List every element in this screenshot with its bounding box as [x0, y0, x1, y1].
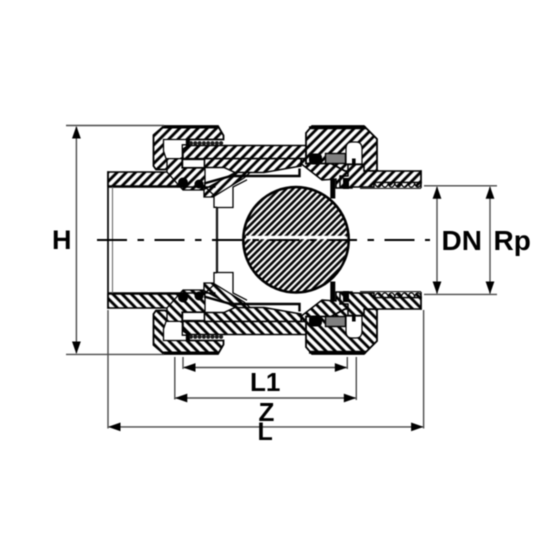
dimension H arrow top — [72, 126, 81, 139]
dimension L1 extension line left — [182, 357, 184, 369]
boot edge tick — [186, 140, 189, 147]
cage top bold edge — [204, 169, 300, 184]
nut right thread contact strip — [309, 126, 366, 129]
dimension DN arrow bottom — [433, 282, 442, 295]
o-ring A — [178, 178, 188, 188]
dimension Z extension line left — [174, 357, 176, 400]
union nut left — [154, 126, 224, 170]
dimension DN extension line top — [424, 185, 497, 187]
dimension L arrow left — [108, 423, 121, 432]
dimension DN arrow top — [433, 186, 442, 199]
dimension Rp line — [489, 187, 491, 294]
dimension L extension line left — [107, 310, 109, 429]
svg-text:L: L — [258, 418, 273, 446]
svg-text:Rp: Rp — [494, 225, 531, 256]
dimension L1 arrow left — [183, 363, 196, 372]
cage inner step bottom — [217, 273, 247, 301]
dimension H extension line top — [66, 125, 164, 127]
claw arm — [204, 173, 250, 198]
union nut right — [306, 126, 381, 182]
body wedge under band — [205, 159, 302, 173]
seal black — [309, 154, 322, 165]
dimension H arrow bottom — [72, 342, 81, 355]
dimension DN line — [436, 187, 438, 294]
dimension DN extension line bottom — [424, 293, 497, 295]
spigot inner end line — [112, 187, 114, 293]
centerline axis — [97, 239, 430, 241]
svg-text:L1: L1 — [250, 367, 280, 397]
dimension Z arrow right — [344, 394, 357, 403]
cage outline bottom-left — [202, 273, 217, 296]
left end face line — [107, 171, 109, 309]
dimension Z line — [176, 397, 355, 399]
dimension L1 extension line right — [346, 357, 348, 369]
ball centerline clearance strip — [246, 236, 346, 239]
seal gland grey — [326, 154, 346, 164]
svg-text:DN: DN — [442, 225, 482, 256]
seat bar inner — [330, 179, 335, 199]
dimension Z extension line right — [355, 357, 357, 400]
o-ring B — [195, 180, 204, 189]
nut right inner arch relief — [346, 142, 362, 164]
dimension Rp arrow bottom — [486, 282, 495, 295]
bore line left — [108, 186, 216, 188]
right end face line lower — [420, 292, 422, 310]
right end face line upper — [420, 170, 422, 188]
arch pin tick — [352, 159, 356, 171]
nut left top cap edge — [162, 126, 219, 129]
dimension L1 arrow right — [335, 363, 348, 372]
cage inner step top — [217, 180, 247, 208]
ball — [243, 187, 348, 292]
body slope to seat — [301, 159, 352, 188]
dimension L1 line — [184, 367, 346, 369]
bottom half of valve assembly (mirrored copy) — [108, 282, 421, 355]
o-ring seat block left — [167, 159, 205, 190]
dimension H line — [75, 127, 77, 353]
dimension Z arrow left — [175, 394, 188, 403]
internal thread crests right — [375, 183, 421, 188]
thread root line right — [360, 187, 421, 189]
dimension L line — [109, 426, 423, 428]
left spigot wall — [108, 172, 184, 186]
dimension L arrow right — [411, 423, 424, 432]
right connector body — [340, 165, 421, 188]
dimension Rp arrow top — [486, 186, 495, 199]
seat bar outer — [343, 178, 349, 189]
top half of valve assembly — [108, 126, 421, 199]
dimension L extension line right — [423, 310, 425, 429]
cage side walls — [202, 184, 217, 207]
svg-text:H: H — [52, 225, 72, 255]
dimension H extension line bottom — [66, 353, 164, 355]
white slot above seat — [183, 160, 205, 168]
body sleeve band — [183, 146, 310, 159]
nut left inner boot relief — [164, 140, 190, 162]
cage wall — [216, 207, 218, 272]
body male thread crest strip left — [189, 141, 223, 145]
